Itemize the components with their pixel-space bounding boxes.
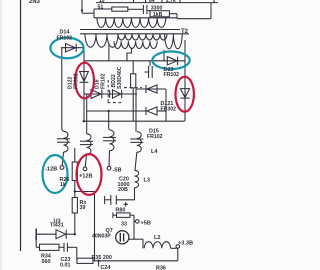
diode D13 xyxy=(150,57,185,65)
svg-text:2N3: 2N3 xyxy=(29,0,41,5)
svg-text:FR302: FR302 xyxy=(74,73,80,89)
dashes vertical xyxy=(107,80,109,103)
transistor Q7 bars xyxy=(120,233,123,242)
diode D121 xyxy=(180,61,189,121)
capacitor 3300 xyxy=(143,5,147,14)
dashes xyxy=(124,87,142,89)
wire xyxy=(133,215,135,239)
junction xyxy=(74,190,76,192)
wire xyxy=(176,14,178,19)
inductor 4 L4 xyxy=(130,132,143,153)
svg-text:TI431: TI431 xyxy=(50,223,64,229)
regulator U3 TL431 xyxy=(36,229,75,241)
wire xyxy=(148,10,151,12)
svg-text:L3: L3 xyxy=(144,178,151,184)
terminal -12B xyxy=(60,166,64,170)
svg-text:+3.3B: +3.3B xyxy=(178,240,193,246)
svg-text:2.7k: 2.7k xyxy=(166,0,176,4)
diode array wire row xyxy=(84,93,137,95)
transformer secondary top line xyxy=(80,33,189,35)
top horizontal wire xyxy=(96,2,218,4)
secondary tap wire xyxy=(127,48,132,62)
junction xyxy=(97,260,99,262)
svg-text:R36: R36 xyxy=(156,265,166,270)
wire xyxy=(128,8,143,10)
junction xyxy=(81,9,83,11)
left border line xyxy=(20,0,22,251)
wire xyxy=(35,240,37,247)
wire xyxy=(142,239,144,248)
resistor R26 xyxy=(72,148,77,192)
resistor R34 xyxy=(36,244,64,250)
svg-text:T2: T2 xyxy=(181,29,189,35)
wire xyxy=(177,248,179,260)
capacitor C23 xyxy=(64,243,77,252)
wire xyxy=(135,89,137,132)
svg-text:S30D40C: S30D40C xyxy=(117,66,123,89)
resistor Rx 39 xyxy=(72,192,77,235)
wire xyxy=(108,44,110,61)
svg-text:FR302: FR302 xyxy=(161,106,177,112)
svg-text:3300: 3300 xyxy=(151,6,163,12)
wire xyxy=(135,152,137,170)
wire secondary output xyxy=(84,60,150,62)
wire xyxy=(169,13,177,15)
wire xyxy=(163,50,165,61)
svg-text:+5B: +5B xyxy=(141,220,151,226)
svg-text:0.01: 0.01 xyxy=(60,262,71,268)
inductor 1 xyxy=(57,131,70,152)
wire xyxy=(61,48,63,130)
wire xyxy=(62,152,63,166)
annotation ellipse cyan D14 xyxy=(50,38,83,59)
wire xyxy=(177,18,211,20)
svg-text:20B: 20B xyxy=(118,187,128,193)
wire xyxy=(108,111,110,128)
diode D14 xyxy=(61,44,84,52)
resistor 1kB box xyxy=(150,11,169,17)
wire xyxy=(165,89,167,121)
svg-text:1kB: 1kB xyxy=(153,12,163,18)
svg-text:L4: L4 xyxy=(151,149,158,155)
wire xyxy=(82,12,94,14)
terminal +3.3B xyxy=(176,245,180,249)
diode right 2 xyxy=(110,90,122,98)
svg-text:-12B: -12B xyxy=(45,167,57,173)
wire xyxy=(94,17,177,19)
inductor L2 xyxy=(144,242,170,249)
svg-text:51: 51 xyxy=(98,5,104,11)
svg-text:40N03P: 40N03P xyxy=(92,233,111,239)
terminal -5B xyxy=(107,166,111,170)
tick xyxy=(161,0,163,3)
wire xyxy=(83,49,85,122)
svg-text:R80: R80 xyxy=(116,208,126,214)
wire xyxy=(94,192,96,261)
wire right secondary leg xyxy=(184,40,186,61)
annotation ellipse cyan D13 xyxy=(152,52,189,70)
scan left edge shade xyxy=(0,0,2,270)
junction xyxy=(83,120,85,122)
wire xyxy=(129,238,143,240)
dashes xyxy=(108,102,123,104)
capacitor C24 lead xyxy=(98,261,100,267)
diode left 2 xyxy=(146,107,166,115)
wire primary feed xyxy=(81,0,83,13)
diode right 1 xyxy=(91,90,102,99)
annotation ellipse red D122 xyxy=(75,63,94,99)
transformer secondary right loops xyxy=(165,34,183,49)
svg-text:FR102: FR102 xyxy=(101,73,107,89)
svg-text:+12B: +12B xyxy=(79,173,93,179)
bus wire 2 xyxy=(84,120,185,122)
transformer T2 secondary winding large loops xyxy=(85,34,118,48)
resistor mid vertical xyxy=(131,74,136,88)
capacitor C20 xyxy=(105,195,135,205)
wire xyxy=(132,88,134,121)
wire xyxy=(171,247,177,249)
svg-text:FR102: FR102 xyxy=(57,35,73,41)
plus sign xyxy=(124,202,129,206)
transformer T2 primary winding xyxy=(97,18,166,28)
svg-text:-5B: -5B xyxy=(113,168,122,174)
tick top right xyxy=(213,0,215,3)
wire xyxy=(210,3,212,19)
terminal +12B xyxy=(83,167,87,171)
svg-text:33: 33 xyxy=(121,221,127,227)
svg-text:C24: C24 xyxy=(101,265,111,270)
svg-text:R35 200: R35 200 xyxy=(92,255,112,261)
transformer secondary small bumps row 1 xyxy=(118,34,167,40)
svg-text:L2: L2 xyxy=(154,235,161,241)
wire xyxy=(132,61,134,74)
svg-text:1k: 1k xyxy=(60,182,66,188)
transformer secondary small bumps row 2 xyxy=(114,41,157,48)
resistor 51 xyxy=(112,7,128,11)
inductor L3 xyxy=(135,170,139,187)
inductor 2 xyxy=(80,134,93,155)
tick on top wire xyxy=(133,0,135,3)
wire xyxy=(134,188,136,200)
transformer core line xyxy=(80,29,180,31)
annotation ellipse red +12B xyxy=(77,154,102,195)
wire bottom rail xyxy=(93,260,178,262)
inductor 3 xyxy=(103,130,116,151)
tick xyxy=(145,0,147,3)
svg-text:64: 64 xyxy=(149,0,155,4)
junction xyxy=(74,233,76,235)
diode D122 xyxy=(80,72,89,83)
annotation ellipse red D121 xyxy=(176,77,194,112)
svg-text:10: 10 xyxy=(99,0,105,4)
capacitor near D13 xyxy=(145,61,153,78)
tick xyxy=(179,0,181,3)
annotation ellipse cyan -12B xyxy=(43,155,68,193)
terminal +5B xyxy=(134,220,139,224)
wire xyxy=(85,154,86,167)
transistor Q7 circle xyxy=(116,231,129,244)
wire xyxy=(94,8,112,10)
svg-text:560: 560 xyxy=(42,259,51,265)
wire xyxy=(108,151,111,167)
wire xyxy=(76,247,78,260)
resistor R35 xyxy=(77,258,93,263)
wire xyxy=(86,94,88,134)
wire xyxy=(75,191,95,193)
svg-text:FR102: FR102 xyxy=(147,134,163,140)
diode left 1 xyxy=(136,85,166,93)
resistor R80 xyxy=(113,213,134,219)
junction xyxy=(108,110,110,112)
svg-text:39: 39 xyxy=(80,205,86,211)
wire xyxy=(93,9,95,18)
svg-text:FR102: FR102 xyxy=(164,72,180,78)
bus wire xyxy=(87,110,146,112)
